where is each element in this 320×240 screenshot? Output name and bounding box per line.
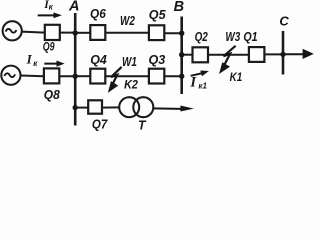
svg-text:Q7: Q7 xyxy=(92,118,108,132)
node on bus A (top branch) xyxy=(73,30,78,35)
wire Q3 to bus B xyxy=(164,75,182,77)
wire bus A to Q4 xyxy=(75,75,90,77)
breaker Q3 xyxy=(149,69,164,84)
svg-text:W2: W2 xyxy=(120,14,135,28)
svg-text:A: A xyxy=(68,0,79,14)
generator G1 xyxy=(3,21,22,40)
svg-text:W3: W3 xyxy=(225,30,240,44)
wire bus A to Q7 xyxy=(75,107,88,109)
svg-text:Q6: Q6 xyxy=(90,7,107,21)
current arrow Iк (top) xyxy=(38,12,62,18)
node on bus A (bottom branch) xyxy=(73,105,78,110)
svg-text:W1: W1 xyxy=(122,55,137,69)
wire bus B to Q2 xyxy=(182,54,193,56)
svg-text:I: I xyxy=(26,51,33,66)
svg-text:Q1: Q1 xyxy=(243,30,257,44)
wire W1 (Q4 to Q3) xyxy=(105,75,149,77)
breaker Q7 xyxy=(88,100,102,113)
breaker Q9 xyxy=(45,25,60,40)
wire Q9 to bus A xyxy=(60,32,76,34)
generator G2 xyxy=(1,66,20,85)
label Iк (generator 1 fault current) xyxy=(43,0,53,11)
label Iк (generator 2 fault current) xyxy=(26,51,39,68)
node on bus C xyxy=(280,52,285,57)
fault K1 (lightning arrow) xyxy=(220,46,236,73)
breaker Q8 xyxy=(44,68,59,83)
node on bus A (middle branch) xyxy=(73,74,78,79)
wire G2 to Q8 xyxy=(21,75,45,78)
wire G1 to Q9 xyxy=(22,31,45,34)
label Iк1 xyxy=(189,74,207,90)
breaker Q4 xyxy=(90,69,105,84)
node on bus B (top branch) xyxy=(179,31,184,36)
bus B xyxy=(180,17,183,95)
svg-text:K1: K1 xyxy=(230,72,243,84)
svg-text:T: T xyxy=(138,118,146,133)
breaker Q2 xyxy=(193,47,209,62)
fault K2 (lightning arrow) xyxy=(109,67,122,92)
svg-text:C: C xyxy=(279,14,289,29)
transformer T xyxy=(119,97,153,117)
svg-text:B: B xyxy=(174,0,184,15)
svg-text:Q3: Q3 xyxy=(149,53,166,67)
svg-text:Q4: Q4 xyxy=(90,53,107,67)
wire Q1 to bus C xyxy=(264,53,284,55)
breaker Q1 xyxy=(249,47,265,62)
outgoing arrow from transformer xyxy=(153,106,194,112)
current arrow Iк1 (into fault K1) xyxy=(190,71,209,77)
outgoing arrow from bus C xyxy=(283,49,314,59)
wire bus A to Q6 xyxy=(75,32,90,34)
breaker Q6 xyxy=(90,25,105,40)
node on bus B (middle branch) xyxy=(179,74,184,79)
svg-text:K2: K2 xyxy=(124,78,138,92)
wire Q8 to bus A xyxy=(59,75,76,77)
svg-text:Q5: Q5 xyxy=(149,8,167,22)
breaker Q5 xyxy=(149,25,164,40)
wire W3 (Q2 to Q1) xyxy=(208,54,249,56)
svg-text:Q8: Q8 xyxy=(44,88,60,102)
bus A xyxy=(74,13,77,126)
wire Q5 to bus B xyxy=(164,32,182,34)
svg-text:Q2: Q2 xyxy=(195,30,208,44)
wire Q7 to transformer T xyxy=(102,106,120,108)
bus C xyxy=(282,31,285,75)
node on bus B (line to C) xyxy=(179,52,184,57)
wire W2 (Q6 to Q5) xyxy=(105,32,149,34)
current arrow Iк (generator 2) xyxy=(44,61,64,67)
svg-text:к1: к1 xyxy=(198,81,207,90)
svg-text:Q9: Q9 xyxy=(43,41,55,53)
